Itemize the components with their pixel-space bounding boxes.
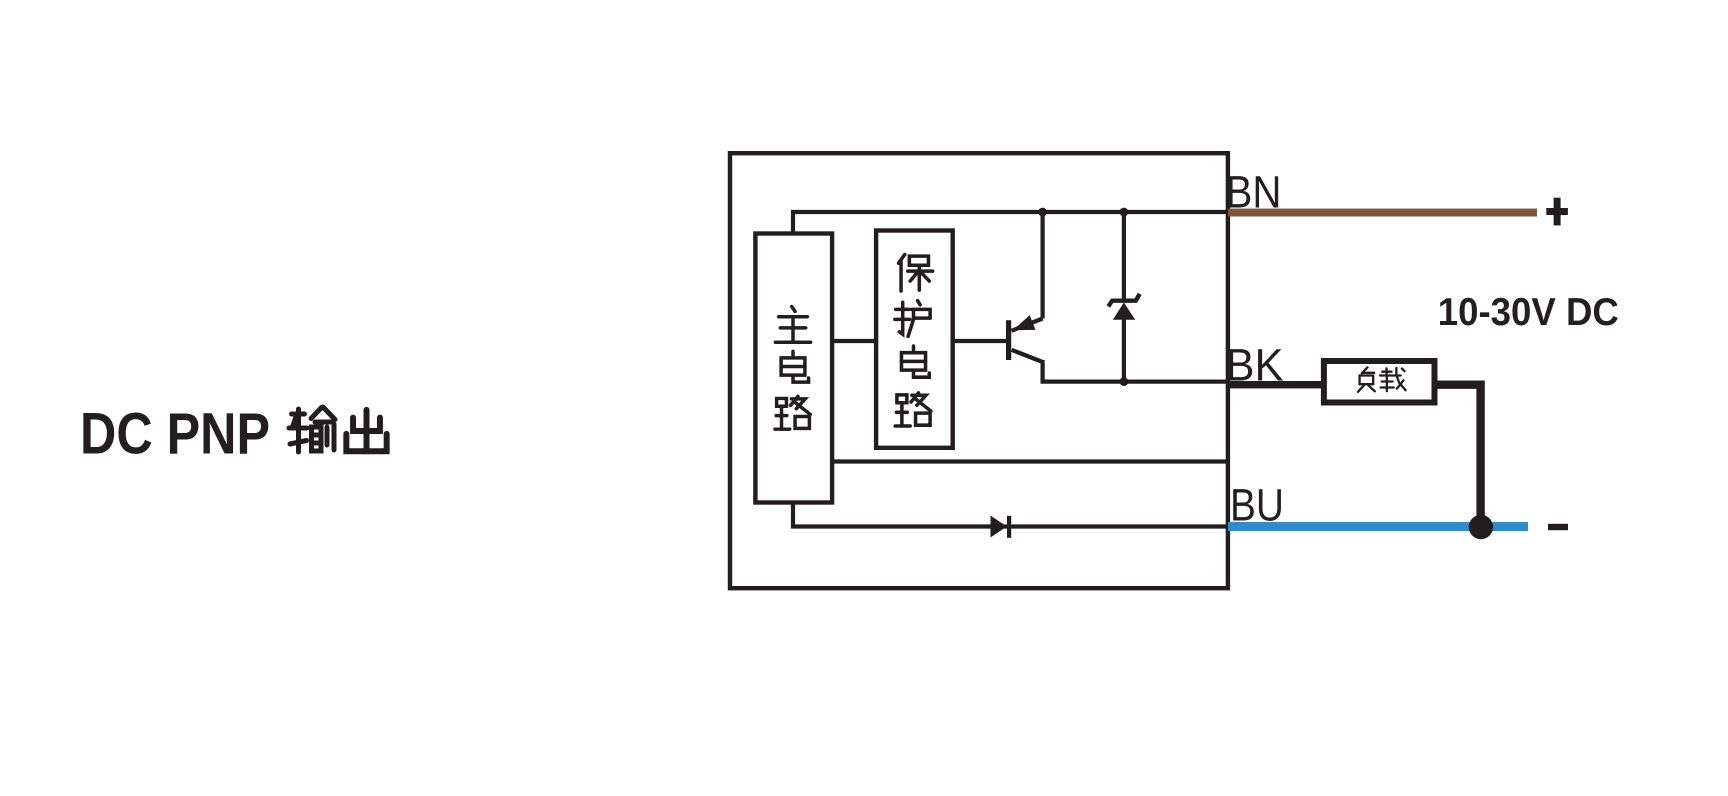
protection label glyph 路 — [895, 393, 931, 426]
wire: base lead from protection block — [953, 339, 1007, 343]
wire: bottom BU line from main circuit to right edge — [793, 503, 1228, 527]
protection label glyph 保 — [899, 254, 933, 291]
protection label glyph 电 — [901, 346, 929, 377]
title glyph 出 — [346, 410, 386, 451]
load label glyph 负 — [1358, 367, 1375, 391]
junction dot on BU wire — [1469, 515, 1493, 539]
load label glyph 载 — [1380, 368, 1406, 391]
main circuit block 主电路 — [755, 234, 832, 503]
junction dot: emitter on top rail — [1038, 208, 1047, 217]
title glyph 输 — [289, 407, 335, 452]
plus terminal — [1546, 198, 1568, 226]
main circuit label glyph 路 — [775, 396, 810, 429]
wire: internal 0V line — [832, 459, 1228, 463]
protection circuit block 保护电路 — [876, 231, 953, 448]
zener diode D2 — [1108, 210, 1139, 382]
svg-text:10-30V DC: 10-30V DC — [1438, 291, 1619, 334]
wire BU (blue) — [1228, 522, 1528, 531]
diode D1 on BU line — [991, 516, 1012, 538]
transistor Q1 (PNP) — [1009, 210, 1043, 362]
svg-text:DC PNP: DC PNP — [80, 401, 270, 466]
load box 负载 — [1324, 361, 1435, 403]
protection label glyph 护 — [895, 301, 930, 337]
wire: link between main and protection blocks — [832, 339, 876, 343]
junction dot: zener on top rail — [1120, 208, 1129, 217]
wire: load to minus rail — [1437, 385, 1481, 527]
wire: collector to BK line inside box — [1043, 360, 1228, 382]
wire BK (black) to load — [1228, 381, 1324, 388]
main circuit label glyph 电 — [781, 351, 808, 382]
wire BN (brown) — [1228, 209, 1537, 217]
sensor outline box — [730, 153, 1228, 588]
junction dot: zener on BK line — [1120, 377, 1129, 386]
minus terminal — [1548, 524, 1568, 530]
wire: top supply rail from main circuit to right edge — [793, 212, 1228, 234]
main circuit label glyph 主 — [775, 307, 810, 343]
